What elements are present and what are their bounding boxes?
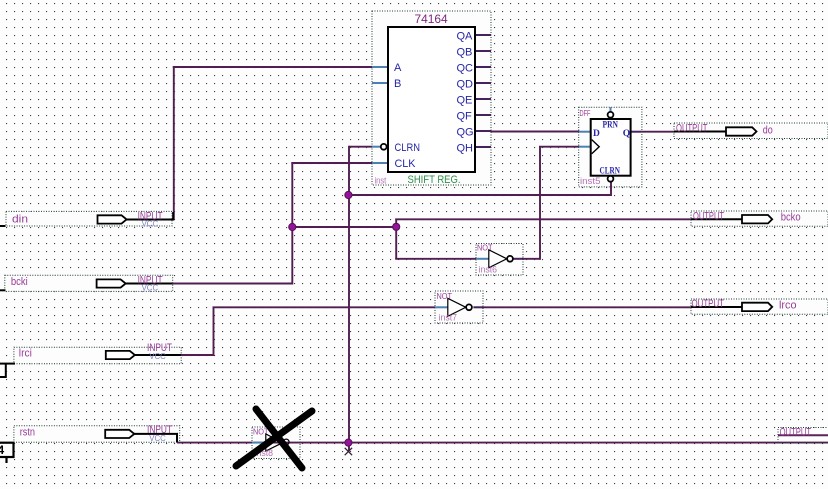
pin stub QB (475, 50, 491, 52)
NOT gate inst8 (crossed out) (252, 427, 300, 459)
wire DFF Q to do output (642, 131, 675, 133)
junction dot at (396,227) (393, 223, 400, 230)
selection box fill 74164 (372, 11, 491, 185)
pin stub QA (475, 34, 491, 36)
NOT gate inst7 (435, 291, 483, 323)
lrci pin lead (134, 354, 181, 356)
selection box fill rstn (14, 426, 180, 443)
bcki pin lead (125, 283, 173, 285)
bottom output selection box (778, 428, 828, 443)
clipped element at left edge near lrci (0, 364, 15, 377)
din pin symbol (98, 215, 127, 223)
big X deletion mark over inst8 (236, 409, 312, 468)
inst7 bubble (466, 304, 472, 310)
svg-text:QB: QB (457, 47, 473, 59)
svg-text:CLK: CLK (395, 158, 417, 170)
selection box fill bottom output (778, 428, 828, 443)
CLRN bubble (608, 176, 614, 182)
74164 selection box (372, 11, 491, 185)
svg-text:B: B (394, 78, 401, 90)
pin stub CLK (372, 162, 388, 164)
do pin lead (674, 131, 726, 133)
lrco selection box (691, 299, 828, 314)
junction dot at (292,227) (289, 223, 296, 230)
inst8 bubble (283, 439, 289, 445)
svg-text:din: din (12, 213, 28, 225)
lrco pin symbol (742, 303, 772, 311)
wire branch at y=227 from bcki vertical to dot2 (292, 226, 396, 228)
bcki selection box (5, 275, 173, 291)
Q output stub (631, 131, 642, 133)
svg-text:D: D (593, 129, 600, 139)
clipped wire stub at left edge below din (0, 225, 6, 227)
svg-text:bcki: bcki (11, 276, 28, 288)
wire din net: din pin up to A input of 74164 (173, 66, 373, 220)
PRN stub (610, 107, 612, 111)
selection box fill inst7 (435, 291, 483, 323)
output pin do (674, 123, 828, 139)
svg-text:PRN: PRN (603, 121, 619, 131)
inst7 input lead (435, 306, 448, 308)
wire bcki net: bcki pin right, up to CLK of 74164 (173, 163, 372, 285)
pin stub QD (475, 82, 491, 84)
svg-text:Q: Q (623, 129, 630, 139)
output pin bcko (691, 210, 828, 226)
inst7 selection box (435, 291, 483, 323)
svg-text:A: A (394, 62, 402, 74)
wire CLRN net vertical: 74164 CLRN down to rstn wire (349, 146, 373, 452)
selection box fill bcki (5, 275, 173, 291)
CLRN bubble (381, 144, 387, 150)
lrci selection box (14, 347, 181, 364)
svg-text:CLRN: CLRN (395, 142, 421, 154)
selection box fill bcko (691, 211, 828, 226)
pin stub QG (475, 130, 491, 132)
svg-text:74164: 74164 (415, 12, 449, 26)
pin stub QH (475, 146, 491, 148)
selection box fill do (674, 123, 828, 139)
selection box fill inst8 (252, 427, 300, 459)
svg-text:QH: QH (457, 143, 474, 155)
inst8 triangle (266, 434, 283, 451)
selection box fill inst6 (476, 244, 523, 276)
rstn selection box (14, 426, 180, 443)
lrco pin lead (691, 306, 743, 308)
svg-text:OUTPUT: OUTPUT (692, 298, 725, 310)
inst6 output lead (513, 258, 523, 260)
output pin lrco (691, 298, 828, 314)
svg-text:bcko: bcko (781, 212, 801, 224)
svg-text:QA: QA (457, 31, 474, 43)
DFF selection box (579, 107, 642, 187)
rstn pin symbol (105, 430, 134, 438)
inst6 triangle (489, 250, 507, 268)
wire QG of 74164 to D of DFF (491, 131, 580, 133)
bcko selection box (691, 211, 828, 226)
svg-text:VCC: VCC (142, 283, 159, 293)
junction dot at (348.5,442.6) on rstn wire (345, 439, 352, 446)
svg-text:QD: QD (457, 79, 474, 91)
svg-text:SHIFT REG.: SHIFT REG. (408, 174, 461, 186)
x mark below junction at (348.5,451) (345, 448, 352, 455)
svg-text:VCC: VCC (149, 351, 166, 361)
svg-text:inst5: inst5 (580, 176, 601, 186)
input pin lrci (14, 342, 181, 364)
do selection box (674, 123, 828, 139)
bottom output pin lead (778, 434, 828, 436)
inst7 output lead (473, 306, 483, 308)
inst6 input lead (476, 258, 489, 260)
svg-text:4: 4 (0, 443, 5, 457)
svg-text:QG: QG (457, 127, 474, 139)
wire NOT inst6 output to DFF clock (522, 147, 580, 260)
DFF U inst5 (579, 107, 642, 187)
output pin bottom right (clipped) (778, 427, 828, 443)
junction dot at (349,195) (345, 191, 352, 198)
bcko pin symbol (742, 215, 772, 223)
74164 shift register symbol (372, 11, 491, 186)
input pin rstn (14, 424, 180, 443)
wire DFF CLRN: branch from vertical at y=195 to below DFF (348, 182, 611, 196)
CLRN stub (372, 146, 381, 148)
inst8 input lead (252, 442, 266, 444)
svg-text:inst6: inst6 (479, 264, 498, 274)
lrci pin symbol (106, 351, 135, 359)
inst7 triangle (448, 298, 466, 316)
pin stub QF (475, 114, 491, 116)
bcko pin lead (691, 218, 743, 220)
selection box fill lrco (691, 299, 828, 314)
svg-text:rstn: rstn (20, 427, 35, 439)
clock triangle (592, 140, 600, 154)
selection box fill lrci (14, 347, 181, 364)
svg-text:inst7: inst7 (439, 312, 458, 322)
svg-text:lrci: lrci (19, 348, 32, 360)
74164 body (388, 27, 475, 172)
D input stub (579, 131, 591, 133)
svg-text:inst: inst (375, 176, 387, 186)
inst6 bubble (507, 256, 513, 262)
inst6 selection box (476, 244, 523, 276)
PRN bubble (608, 112, 614, 118)
clock input stub (579, 146, 591, 148)
svg-text:OUTPUT: OUTPUT (693, 210, 724, 222)
clipped page-number box 4 at bottom left (0, 443, 14, 463)
svg-text:CLRN: CLRN (600, 167, 621, 177)
svg-text:VCC: VCC (142, 219, 159, 229)
wire lrci net: lrci pin right, up, right to NOT inst7 (181, 307, 435, 356)
input pin bcki (5, 275, 173, 293)
selection box fill DFF (579, 107, 642, 187)
wire NOT inst7 output to lrco output (482, 306, 691, 308)
DFF body (591, 119, 631, 176)
input pin din (6, 211, 173, 229)
pin stub QC (475, 66, 491, 68)
pin stub A (372, 66, 388, 68)
svg-text:OUTPUT: OUTPUT (676, 123, 708, 135)
wire bcko branch: jog up from dot2 then right to bcko output (395, 219, 691, 227)
wire to NOT inst6 input: down from dot2 then right (395, 226, 476, 259)
svg-text:QF: QF (457, 111, 473, 123)
pin stub B (372, 82, 388, 84)
inst8 selection box (252, 427, 300, 459)
din pin lead (126, 212, 173, 220)
wire rstn net: long horizontal wire to right edge (177, 442, 828, 444)
NOT gate inst6 (476, 242, 523, 275)
svg-text:do: do (763, 125, 773, 137)
pin stub QE (475, 98, 491, 100)
svg-text:VCC: VCC (149, 433, 166, 443)
svg-text:DFF: DFF (580, 109, 591, 118)
rstn pin lead (134, 434, 178, 442)
din selection box (6, 211, 172, 226)
clipped wire stub at left edge below bcki (0, 289, 6, 291)
svg-text:QC: QC (457, 63, 474, 75)
do pin symbol (726, 127, 757, 135)
svg-text:OUTPUT: OUTPUT (780, 427, 812, 439)
bcki pin symbol (97, 279, 126, 287)
selection box fill din (6, 211, 172, 226)
svg-text:QE: QE (457, 95, 473, 107)
svg-text:lrco: lrco (779, 299, 797, 311)
